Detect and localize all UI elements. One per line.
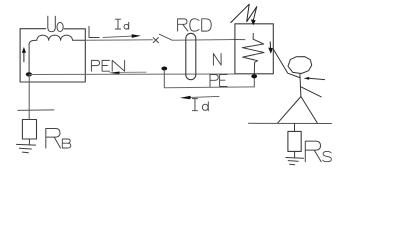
wire: floor to RS: [294, 123, 296, 131]
person arm touching box: [273, 49, 300, 78]
wire: RS to ground: [294, 151, 296, 157]
node: PEN junction dot at source: [26, 72, 32, 76]
label Id (bottom): [192, 99, 208, 111]
load resistor zigzag inside box: [242, 33, 264, 74]
wire: L conductor from source box to fault point: [85, 39, 152, 41]
switch blade at fault: [159, 34, 172, 40]
soil surface line at source earth: [18, 109, 54, 112]
ground symbol at RS: [286, 158, 304, 165]
fault location mark x: [153, 38, 158, 43]
arrow: Id return in PE (points left): [190, 96, 219, 97]
arrow: touch current down right edge of box: [269, 42, 271, 48]
floor line: [248, 122, 331, 124]
person right arm: [301, 87, 321, 97]
resistor RS (earthing resistance at person): [288, 131, 301, 151]
label L (line conductor): [89, 26, 99, 37]
wire: PE riser to load box bottom: [253, 76, 255, 87]
node: PE tap junction dot: [161, 67, 167, 71]
source box (transformer enclosure): [20, 29, 85, 82]
wire: L conductor from fault through RCD to load box: [172, 39, 235, 42]
label RB: [46, 129, 71, 149]
arrow: return current in PEN (points left): [119, 71, 146, 73]
label U0: [48, 16, 63, 32]
resistor RB (earthing resistance of source): [22, 120, 36, 140]
RCD toroid (stadium shape): [186, 33, 196, 79]
label PE: [210, 75, 227, 87]
wire: L stub inside load box: [235, 39, 245, 41]
label PEN: [91, 60, 124, 71]
winding U0 (source coil): [29, 35, 85, 44]
wire: PEN / N conductor (runs right to load box): [29, 73, 235, 76]
wire: RB to ground: [28, 139, 30, 145]
person legs: [278, 97, 318, 124]
arrow: contact point at neck (points left): [309, 78, 325, 79]
wire: PE branch drop: [163, 70, 165, 88]
label RCD: [178, 19, 212, 31]
label Id (top): [115, 19, 128, 29]
wire: RB earthing lead down from node: [28, 75, 30, 120]
ground symbol at RB: [16, 144, 35, 152]
node: junction dot on load box bottom: [251, 74, 257, 78]
wire: PE conductor below RCD: [164, 86, 254, 89]
person head: [288, 57, 312, 74]
lightning bolt (fault strike): [231, 4, 257, 22]
load box (equipment enclosure): [235, 24, 273, 74]
label N: [213, 54, 221, 66]
arrow: fault current Id in L (points right): [103, 36, 132, 37]
label RS: [305, 141, 331, 162]
voltage direction arrow (up) inside source box: [23, 52, 25, 62]
wire: coil left lead down to PEN node: [28, 45, 30, 75]
person body: [300, 74, 301, 97]
